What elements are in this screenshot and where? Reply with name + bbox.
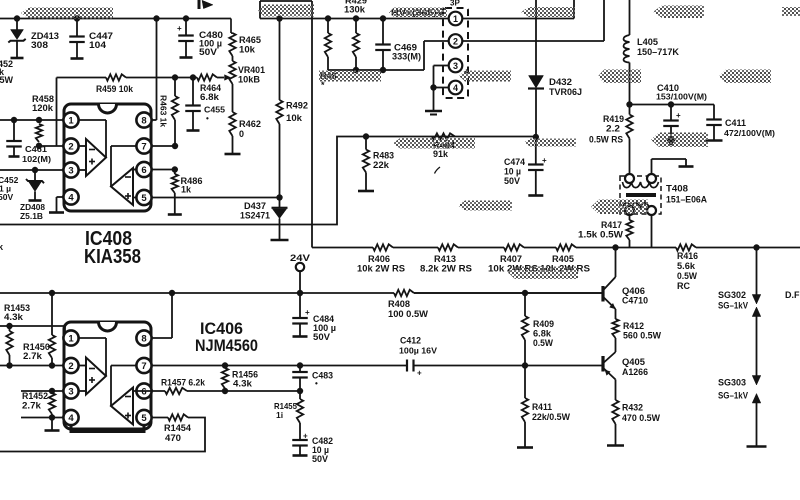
resistor R1452 — [51, 391, 53, 393]
wire R408 to Q406 — [414, 292, 602, 294]
svg-text:8: 8 — [141, 116, 146, 127]
capacitor C412 — [406, 360, 408, 372]
wire pin7 to opamp out — [111, 365, 137, 367]
arrow top left — [198, 0, 201, 9]
node R409 top — [522, 290, 528, 296]
wire pin5 row out — [152, 417, 169, 419]
hatch patch over R407 label — [508, 267, 578, 280]
svg-text:3: 3 — [453, 61, 458, 71]
node R1453 top — [6, 323, 12, 329]
wire T408 BR down — [651, 215, 653, 248]
capacitor C410 — [670, 105, 672, 121]
svg-text:R483: R483 — [373, 151, 394, 161]
svg-text:R459 10k: R459 10k — [96, 84, 134, 94]
wire pin2 row IC406 — [0, 365, 64, 367]
wire mid bus — [0, 137, 535, 225]
svg-text:1: 1 — [453, 14, 458, 24]
ground R411 — [517, 446, 533, 449]
node R1456 top — [222, 362, 228, 368]
svg-text:L405: L405 — [637, 37, 658, 47]
node ZD408 tap — [32, 167, 38, 173]
inductor L405 — [629, 0, 631, 35]
svg-text:7: 7 — [141, 142, 146, 153]
op-amp U2A triangle — [86, 358, 106, 395]
node R492 top — [276, 15, 282, 21]
wire pin7 row — [152, 145, 176, 147]
node R409 bottom — [522, 362, 528, 368]
diode D432 — [535, 0, 537, 76]
wire C469 to connector pin2 — [383, 69, 424, 71]
diode D437 — [279, 198, 281, 208]
capacitor C469 — [382, 19, 384, 45]
wire pin1 row — [0, 119, 64, 121]
svg-text:2.7k: 2.7k — [23, 351, 43, 361]
svg-text:6.8k: 6.8k — [200, 92, 220, 102]
svg-text:91k: 91k — [433, 149, 449, 159]
svg-text:3P: 3P — [450, 0, 460, 8]
svg-text:10k: 10k — [239, 45, 256, 55]
svg-text:Q405: Q405 — [622, 357, 645, 367]
svg-text:A1266: A1266 — [622, 367, 648, 377]
hatch patch right of D432 top — [521, 7, 575, 17]
svg-text:8.2k 2W RS: 8.2k 2W RS — [420, 264, 472, 274]
node C474 — [533, 134, 539, 140]
zener ZD413 — [16, 19, 18, 30]
pin 2 IC406 — [63, 358, 78, 373]
wire R428/R429 bottom — [328, 69, 383, 71]
svg-text:120k: 120k — [32, 103, 54, 113]
node C483 top — [297, 362, 303, 368]
svg-text:.5W: .5W — [0, 75, 14, 85]
node L405 bottom — [626, 101, 632, 107]
svg-text:R409: R409 — [533, 319, 554, 329]
resistor R1453 — [9, 326, 11, 331]
svg-text:151–E06A: 151–E06A — [666, 195, 707, 205]
svg-text:Q406: Q406 — [622, 286, 645, 296]
node R459/R463 — [172, 74, 178, 80]
hatch patch right of C474 node — [524, 139, 576, 147]
svg-text:C455: C455 — [204, 105, 225, 115]
svg-text:R432: R432 — [622, 403, 643, 413]
capacitor C483 — [299, 366, 301, 372]
svg-text:R462: R462 — [239, 119, 261, 129]
hatch patch over R486 — [319, 71, 381, 82]
pin 2 connector — [449, 34, 463, 48]
svg-text:R417: R417 — [601, 220, 622, 230]
svg-text:308: 308 — [31, 40, 48, 50]
node R463 pin7 row — [172, 143, 178, 149]
svg-text:2.2: 2.2 — [606, 124, 620, 134]
wire pin6 into opamp — [133, 169, 137, 171]
svg-text:104: 104 — [89, 40, 106, 50]
capacitor C480 — [185, 19, 187, 36]
svg-text:472/100V(M): 472/100V(M) — [724, 128, 775, 138]
svg-text:4.3k: 4.3k — [233, 379, 253, 389]
svg-text:1: 1 — [68, 116, 74, 127]
resistor R419 — [629, 105, 631, 115]
hatch patch under C410 — [651, 133, 708, 148]
svg-text:1S2471: 1S2471 — [240, 211, 270, 221]
ground connector — [433, 88, 435, 111]
T408 secondary winding — [623, 203, 650, 209]
svg-text:R465: R465 — [239, 35, 261, 45]
T408 primary winding — [623, 182, 659, 188]
svg-text:R419: R419 — [603, 114, 624, 124]
transistor Q406 base bar — [601, 286, 604, 302]
node top rail C447 — [74, 15, 80, 21]
svg-text:4: 4 — [68, 193, 74, 204]
hatch patch over HV label — [389, 8, 447, 18]
resistor R416 — [676, 244, 696, 250]
svg-text:10 µ: 10 µ — [504, 167, 521, 177]
wire pin4 row IC406 — [21, 417, 64, 419]
svg-text:130k: 130k — [344, 5, 366, 15]
node SG302 top — [753, 244, 759, 250]
ground R1452 — [51, 418, 53, 431]
svg-text:6.8k: 6.8k — [533, 329, 552, 339]
wire pin4 stub — [434, 87, 449, 89]
wire 24V rail — [0, 292, 394, 294]
node R429 top — [353, 15, 359, 21]
wire Q406 collector — [615, 248, 617, 278]
wire pin3 stub IC406 — [79, 390, 87, 392]
svg-text:5.6k: 5.6k — [677, 261, 696, 271]
svg-text:SG303: SG303 — [718, 378, 746, 388]
resistor R417 — [629, 215, 631, 220]
svg-text:2: 2 — [453, 37, 458, 47]
wire R1454 return loop — [0, 418, 205, 452]
resistor R459 — [106, 74, 126, 80]
pin 7 IC406 — [136, 358, 151, 373]
svg-text:TVR06J: TVR06J — [549, 87, 582, 97]
svg-text:1: 1 — [68, 334, 74, 345]
node D437 top — [276, 194, 282, 200]
zener ZD408 — [34, 170, 36, 181]
node R1452 bottom — [49, 414, 55, 420]
svg-text:50V: 50V — [0, 192, 13, 202]
pin 5 IC406 — [136, 410, 151, 425]
pin 3 IC408 — [63, 162, 78, 177]
svg-text:+: + — [542, 156, 547, 165]
svg-text:R411: R411 — [532, 402, 552, 412]
svg-text:0: 0 — [239, 129, 244, 139]
pin 8 IC406 — [136, 330, 151, 345]
node R1450 bottom — [49, 362, 55, 368]
wire 2W resistor row — [312, 247, 373, 249]
svg-text:560 0.5W: 560 0.5W — [623, 331, 661, 341]
resistor R483 — [365, 137, 367, 150]
node R458 bottom — [36, 143, 42, 149]
svg-text:R405: R405 — [552, 254, 574, 264]
pin 1 IC408 — [63, 112, 78, 127]
svg-text:VR401: VR401 — [238, 65, 265, 75]
capacitor C411 — [706, 118, 722, 120]
svg-text:C4710: C4710 — [622, 296, 648, 306]
op-amp U2B triangle — [110, 366, 112, 407]
svg-text:50V: 50V — [504, 176, 520, 186]
resistor R464 — [175, 77, 197, 79]
pin 6 IC406 — [136, 383, 151, 398]
wire pin3 row — [0, 169, 64, 171]
svg-text:+: + — [676, 111, 681, 120]
spark gap SG302 — [756, 248, 758, 297]
T408 terminal BR — [647, 206, 656, 215]
svg-text:50V: 50V — [312, 454, 328, 464]
resistor R462 — [229, 112, 235, 136]
wire pin2 row — [39, 145, 64, 147]
vertical bus x312 — [311, 1, 313, 248]
wire base Q406 — [414, 292, 602, 294]
potentiometer VR401 — [232, 56, 234, 61]
resistor R408 — [394, 290, 414, 296]
svg-text:R406: R406 — [368, 254, 390, 264]
resistor R409 — [524, 293, 526, 316]
capacitor C461 — [13, 120, 15, 141]
svg-text:2.7k: 2.7k — [22, 401, 42, 411]
T408 terminal TL — [625, 174, 634, 183]
wire R1457 to C483 — [187, 390, 300, 392]
resistor R486 — [174, 170, 176, 175]
wire R459 loop — [56, 78, 58, 147]
hatch patch T408 bottom — [591, 200, 648, 215]
svg-text:22k/0.5W: 22k/0.5W — [532, 412, 570, 422]
wiper arrow VR401 — [225, 75, 231, 81]
svg-text:3: 3 — [68, 166, 73, 177]
node C469 bottom — [380, 67, 386, 73]
svg-text:50V: 50V — [199, 47, 217, 57]
svg-text:5: 5 — [141, 413, 147, 424]
svg-text:C474: C474 — [504, 157, 525, 167]
resistor R1457 — [165, 388, 187, 394]
capacitor C447 — [76, 19, 78, 37]
svg-text:100µ 16V: 100µ 16V — [399, 346, 437, 356]
svg-text:0.5W RS: 0.5W RS — [589, 135, 623, 145]
svg-text:470: 470 — [165, 433, 181, 443]
connector 3P box — [443, 8, 468, 98]
ground R432 — [607, 444, 624, 447]
wire top supply rail left segment — [0, 18, 231, 20]
resistor R463 — [174, 78, 176, 97]
svg-text:333(M): 333(M) — [392, 52, 421, 62]
node Q406 collector — [612, 244, 618, 250]
resistor R492 — [279, 19, 281, 101]
svg-text:R407: R407 — [500, 254, 522, 264]
hatch patch top L405 — [653, 6, 704, 19]
ground R462 — [225, 153, 241, 156]
resistor R407 — [504, 244, 524, 250]
pin 8 IC408 — [136, 112, 151, 127]
svg-text:SG–1kV: SG–1kV — [718, 301, 748, 311]
svg-text:D432: D432 — [549, 77, 572, 87]
svg-text:1i: 1i — [276, 410, 283, 420]
svg-text:R492: R492 — [286, 101, 308, 111]
svg-text:1k: 1k — [181, 185, 192, 195]
svg-text:C411: C411 — [725, 118, 746, 128]
node 24V entry — [297, 290, 303, 296]
node C483 bottom — [297, 388, 303, 394]
op-amp U1B triangle — [110, 146, 112, 187]
node pin6 row — [172, 166, 178, 172]
svg-text:NJM4560: NJM4560 — [195, 336, 258, 355]
hatch patch under C474 — [458, 201, 512, 211]
pin 4 connector — [449, 81, 463, 95]
svg-text:153/100V(M): 153/100V(M) — [656, 92, 707, 102]
node pin8 feed IC406 — [169, 290, 175, 296]
resistor R1450 — [51, 293, 53, 335]
node C469 top — [380, 15, 386, 21]
svg-text:4.3k: 4.3k — [4, 312, 24, 322]
node top rail ZD413 — [14, 15, 20, 21]
resistor R1456 — [222, 368, 228, 389]
wire pin1 to opamp3 — [79, 337, 107, 339]
T408 terminal TR — [647, 174, 656, 183]
op-amp IC406 package — [64, 322, 151, 429]
node R483 top — [363, 133, 369, 139]
wire pin1 to opamp1 — [79, 119, 107, 121]
pin 4 IC406 — [63, 410, 78, 425]
svg-text:2: 2 — [68, 142, 73, 153]
pin 6 IC408 — [136, 162, 151, 177]
pin 1 IC406 — [63, 330, 78, 345]
node pin3/pin4 junction — [430, 84, 436, 90]
resistor R465 — [231, 32, 233, 34]
pin 4 IC408 — [63, 189, 78, 204]
wire pin4-pin5 bottom rail — [71, 425, 144, 432]
wire pin1 feed IC406 — [0, 325, 65, 327]
T408 core — [626, 193, 656, 197]
pin 3 IC406 — [63, 383, 78, 398]
svg-text:D.F: D.F — [785, 290, 800, 300]
wire pin3 elbow — [434, 65, 449, 67]
transistor Q405 emitter — [604, 369, 616, 380]
svg-text:4: 4 — [453, 83, 458, 93]
svg-text:100 0.5W: 100 0.5W — [388, 309, 429, 319]
transistor Q406 emitter — [604, 298, 616, 310]
svg-text:R1457 6.2k: R1457 6.2k — [161, 378, 206, 388]
wire pin7 row out — [152, 365, 408, 367]
svg-text:+: + — [417, 369, 422, 378]
node R1456 bottom — [222, 388, 228, 394]
node top rail pin8 feed — [153, 15, 159, 21]
hatch patch right of connector — [459, 71, 511, 82]
svg-text:Z5.1B: Z5.1B — [20, 211, 43, 221]
pin 7 IC408 — [136, 138, 151, 153]
svg-text:150–717K: 150–717K — [637, 47, 679, 57]
svg-text:T408: T408 — [666, 184, 688, 194]
svg-text:•: • — [206, 114, 209, 123]
resistor R428 — [327, 19, 329, 34]
svg-text:5: 5 — [141, 193, 147, 204]
svg-text:R1452: R1452 — [22, 391, 48, 401]
comma mark R484 — [435, 167, 441, 174]
svg-text:0.5W: 0.5W — [533, 338, 553, 348]
svg-text:470 0.5W: 470 0.5W — [622, 413, 660, 423]
svg-text:7: 7 — [141, 361, 146, 372]
pin 2 IC408 — [63, 138, 78, 153]
wire Q405 collector — [615, 349, 617, 352]
node R458 top — [36, 117, 42, 123]
node R1450 top — [49, 290, 55, 296]
wire pin5 row / D437 net — [133, 197, 280, 199]
op-amp U1A triangle — [86, 139, 106, 176]
hatch patch top-left — [21, 8, 113, 19]
transformer T408 box — [620, 176, 661, 214]
svg-text:R463 1k: R463 1k — [159, 95, 169, 127]
svg-text:4: 4 — [68, 413, 74, 424]
wire T408 TR stub — [651, 159, 653, 174]
svg-text:R413: R413 — [434, 254, 456, 264]
node C410 top — [668, 101, 674, 107]
svg-text:R416: R416 — [677, 251, 698, 261]
svg-text:10kB: 10kB — [238, 75, 261, 85]
svg-text:3: 3 — [68, 387, 73, 398]
svg-text:SG–1kV: SG–1kV — [718, 391, 748, 401]
svg-text:1.5k 0.5W: 1.5k 0.5W — [578, 230, 624, 240]
wire pin8 to rail — [156, 19, 158, 121]
node R429 bottom — [353, 67, 359, 73]
spark gap SG303 — [752, 376, 761, 386]
wire pin7 to opamp out — [111, 145, 137, 147]
hatch patch over R484 — [393, 138, 475, 149]
resistor R406 — [373, 244, 393, 250]
resistor R458 — [36, 124, 42, 142]
resistor R1454 — [168, 414, 188, 420]
wire pin2 stub — [79, 145, 87, 147]
svg-text:2: 2 — [68, 361, 73, 372]
svg-text:0.5W: 0.5W — [677, 271, 697, 281]
svg-text:10k 2W RS: 10k 2W RS — [357, 264, 405, 274]
wire pin2 stub IC406 — [79, 365, 87, 367]
svg-text:+: + — [177, 24, 182, 33]
resistor R411 — [524, 366, 526, 399]
node R1452 top — [49, 388, 55, 394]
wire C410/C411 rail — [630, 104, 715, 106]
svg-text:•: • — [315, 379, 318, 388]
wire pin2 to top right — [463, 40, 605, 42]
resistor R413 — [438, 244, 458, 250]
wire pin1 to top right — [463, 18, 575, 20]
node C461 tap — [11, 117, 17, 123]
pin 5 IC408 — [136, 190, 151, 205]
capacitor C474 — [535, 137, 537, 164]
svg-text:SG302: SG302 — [718, 290, 746, 300]
svg-text:R1454: R1454 — [164, 423, 191, 433]
svg-text:6: 6 — [141, 387, 146, 398]
wire pin3 row IC406 — [21, 390, 64, 392]
pin 1 connector — [449, 12, 463, 26]
ground below R486 — [174, 198, 176, 215]
svg-text:R408: R408 — [388, 299, 410, 309]
wire pin3 stub — [79, 169, 87, 171]
svg-text:D437: D437 — [244, 201, 266, 211]
wire pin6 row out — [133, 390, 165, 392]
svg-text:22k: 22k — [373, 160, 390, 170]
svg-text:8: 8 — [141, 334, 146, 345]
capacitor C484 — [299, 293, 301, 318]
resistor R1455 — [299, 391, 301, 399]
wire top rail right segment — [260, 0, 312, 2]
svg-text:24V: 24V — [290, 253, 310, 263]
T408 terminal BL — [625, 206, 634, 215]
op-amp IC408 package — [64, 104, 151, 211]
node top rail C480 — [183, 15, 189, 21]
hatch patch top right corner — [782, 7, 800, 16]
resistor R429 — [355, 19, 357, 34]
resistor R432 — [615, 380, 617, 401]
svg-text:+: + — [305, 308, 310, 317]
resistor R412 — [615, 309, 617, 319]
transistor Q405 base bar — [601, 356, 604, 372]
